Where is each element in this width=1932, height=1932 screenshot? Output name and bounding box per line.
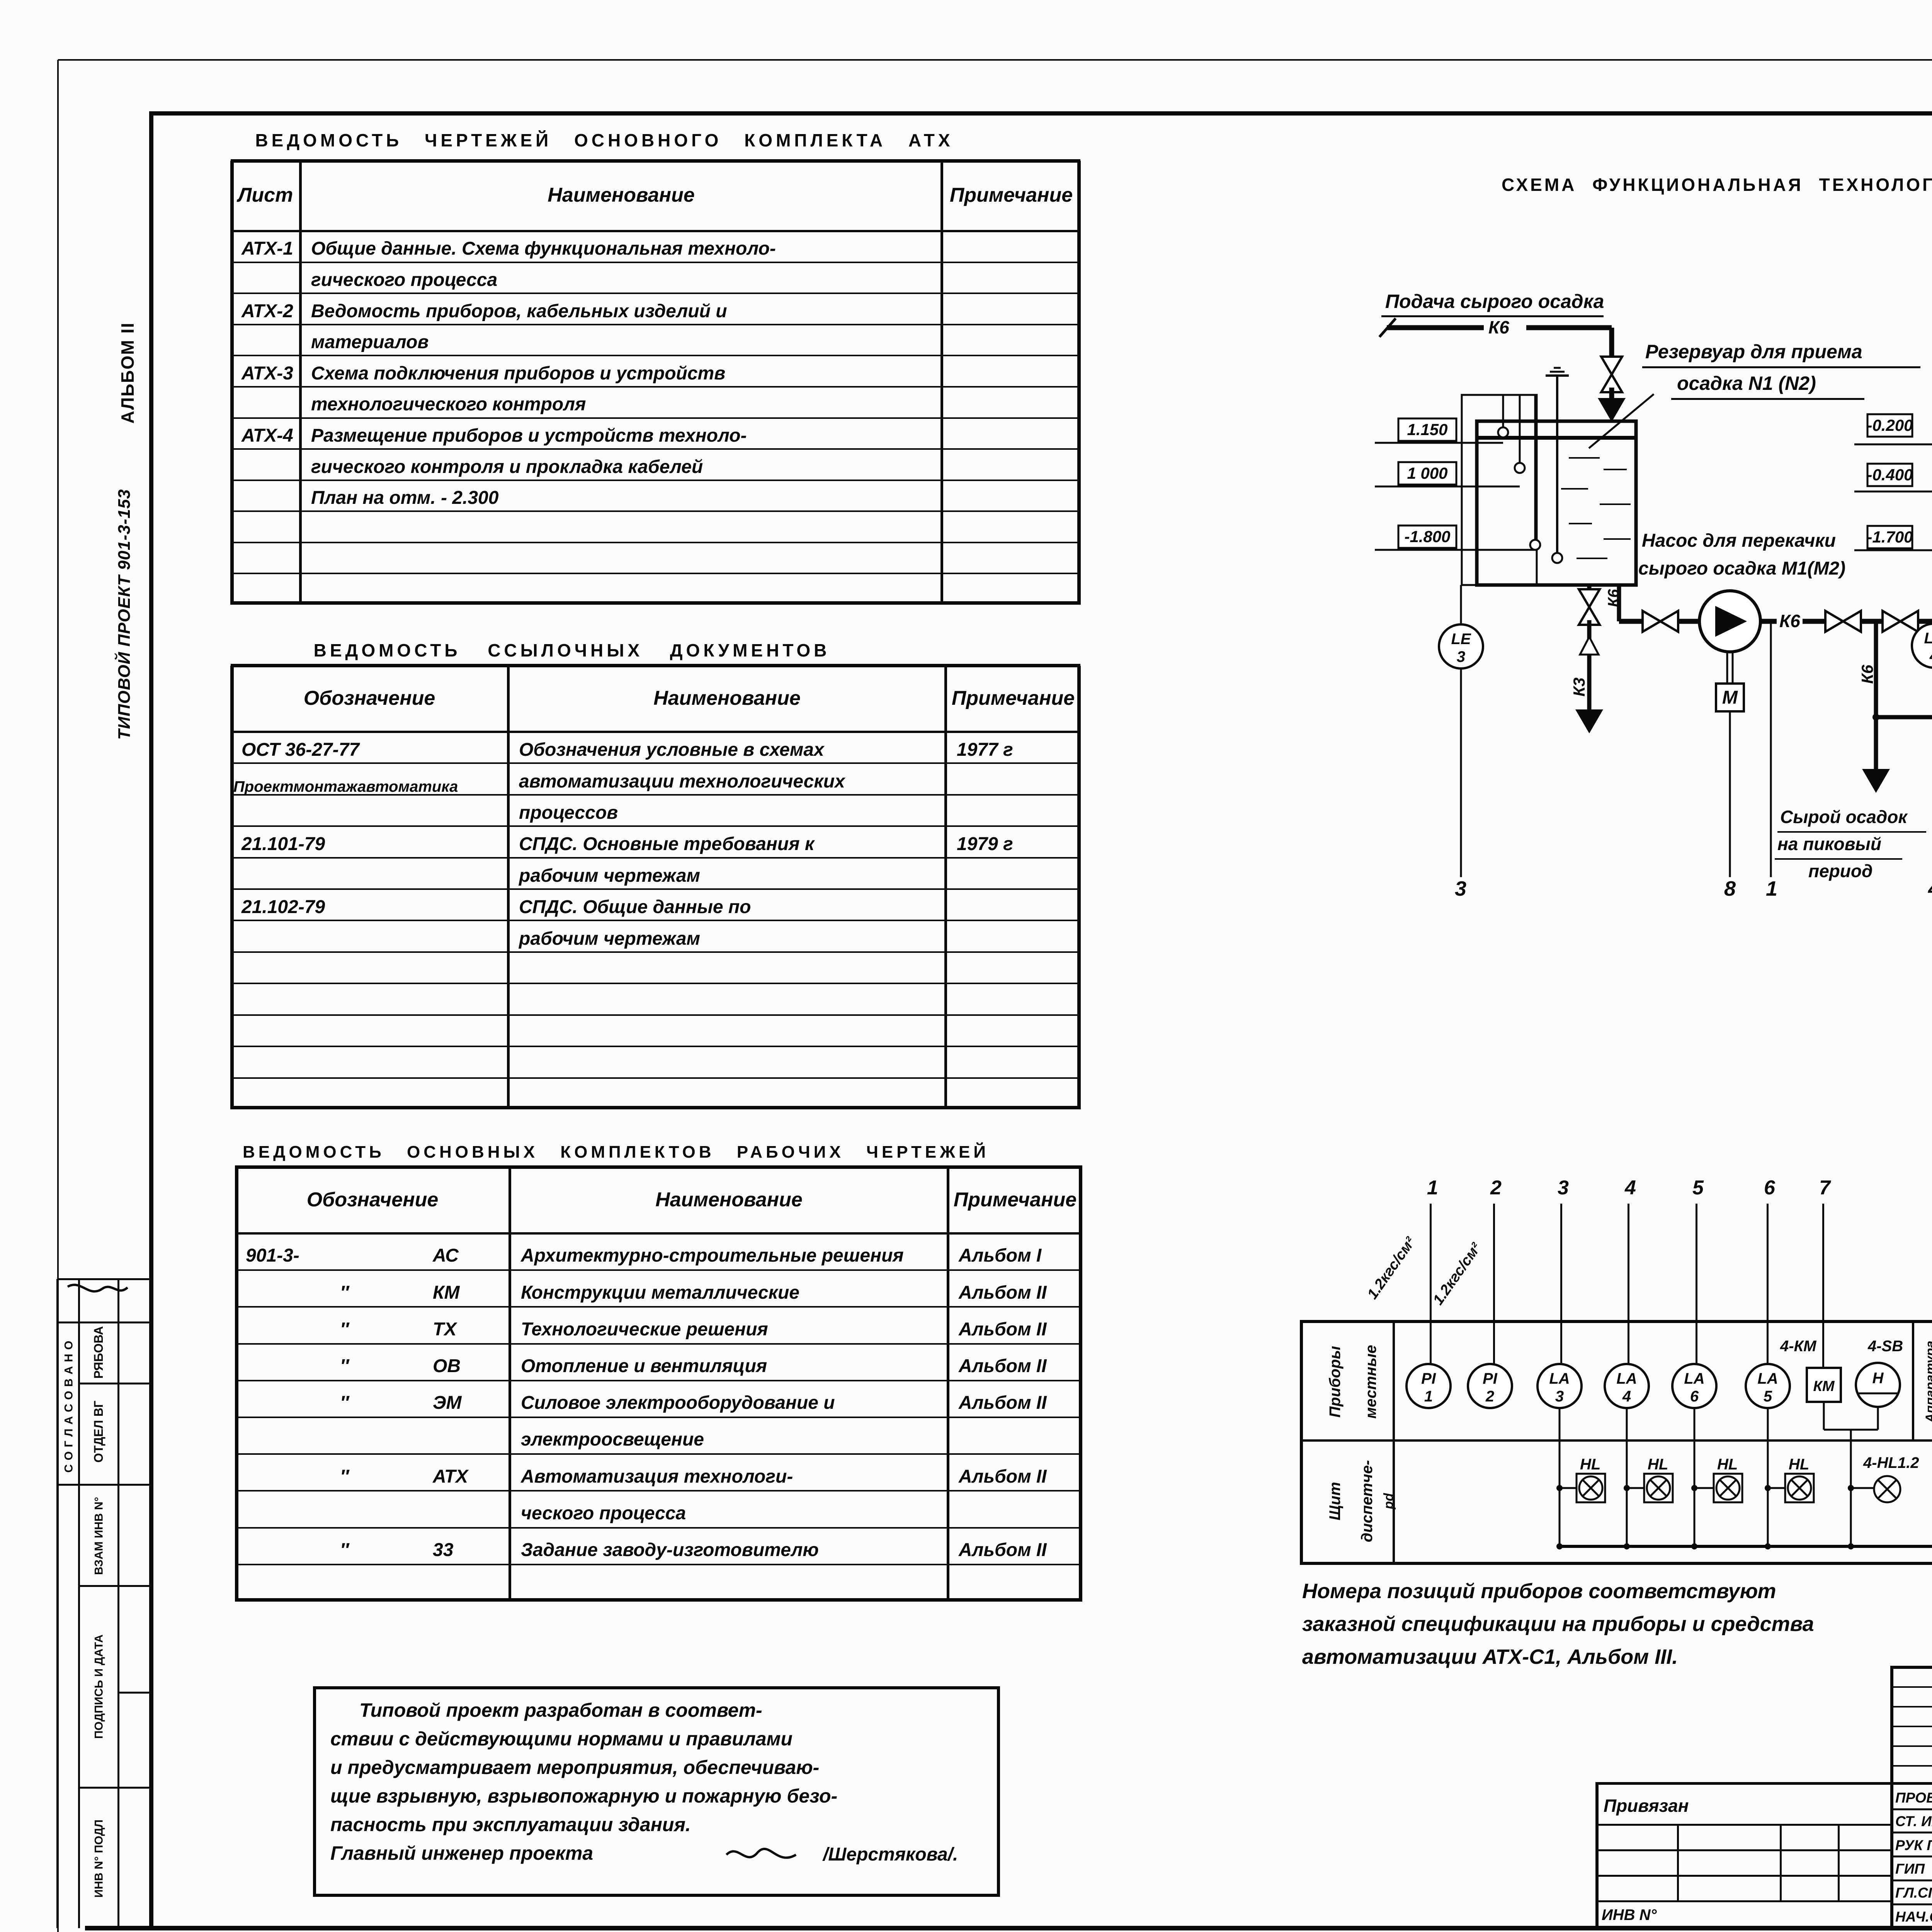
svg-text:LA: LA (1757, 1370, 1778, 1387)
svg-text:LA: LA (1616, 1370, 1637, 1387)
svg-text:PI: PI (1483, 1370, 1498, 1387)
svg-text:2: 2 (1485, 1388, 1494, 1405)
svg-text:Н: Н (1872, 1370, 1884, 1387)
svg-text:4: 4 (1622, 1388, 1631, 1405)
svg-text:1 000: 1 000 (1407, 464, 1447, 482)
svg-text:LE: LE (1924, 630, 1932, 647)
svg-text:PI: PI (1421, 1370, 1436, 1387)
svg-text:-1.800: -1.800 (1404, 527, 1450, 546)
svg-text:LA: LA (1684, 1370, 1704, 1387)
svg-text:-1.700: -1.700 (1867, 528, 1913, 546)
svg-text:4: 4 (1929, 648, 1932, 665)
svg-text:1: 1 (1424, 1388, 1433, 1405)
svg-text:-0.400: -0.400 (1867, 466, 1913, 484)
svg-text:1.150: 1.150 (1407, 420, 1447, 439)
svg-text:3: 3 (1457, 648, 1465, 665)
svg-text:LA: LA (1549, 1370, 1570, 1387)
svg-text:5: 5 (1764, 1388, 1772, 1405)
svg-text:6: 6 (1690, 1388, 1699, 1405)
svg-text:КМ: КМ (1813, 1378, 1835, 1395)
svg-text:-0.200: -0.200 (1867, 416, 1913, 434)
svg-text:М: М (1722, 687, 1738, 708)
svg-text:3: 3 (1555, 1388, 1564, 1405)
svg-text:LE: LE (1451, 631, 1471, 648)
